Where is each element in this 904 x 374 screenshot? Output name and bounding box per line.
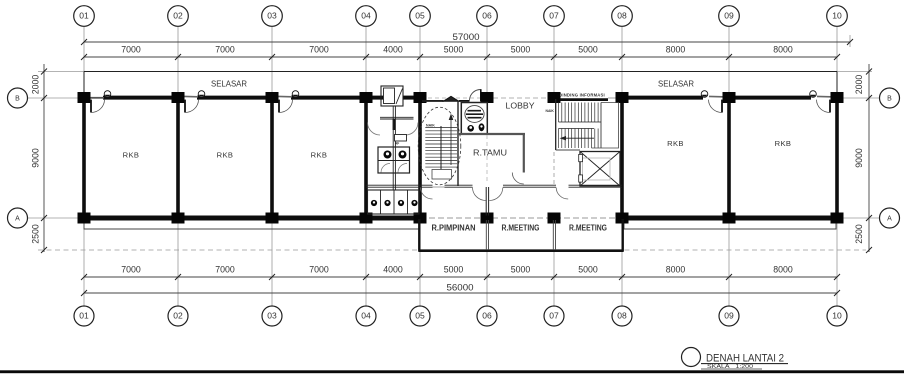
node lift inner cab [583, 158, 611, 180]
svg-text:4000: 4000 [383, 44, 403, 55]
wire selasar top right corner drop [836, 72, 838, 96]
wall meeting divider 2 [553, 220, 555, 250]
node grid bubble 09 top [719, 6, 740, 27]
wall A left section [84, 216, 420, 221]
svg-text:SELASAR: SELASAR [211, 79, 247, 89]
wall column line 02 [176, 98, 180, 218]
svg-text:5000: 5000 [511, 264, 531, 275]
door stall arc 1 [381, 164, 390, 173]
wall B room5 [734, 96, 811, 100]
svg-text:57000: 57000 [453, 31, 480, 42]
svg-text:7000: 7000 [309, 264, 329, 275]
wall stair center divider [440, 126, 442, 170]
door double swing triangle [444, 96, 459, 101]
node urinal bowl 3 [398, 200, 404, 206]
svg-text:8000: 8000 [773, 264, 793, 275]
svg-text:09: 09 [724, 11, 734, 21]
column A-03 [266, 213, 279, 224]
svg-text:B: B [15, 96, 20, 103]
column B-09 [723, 92, 736, 103]
wire col 04 extension top [365, 27, 367, 96]
column A-02 [172, 213, 185, 224]
wire col 02 extension bottom [177, 221, 179, 306]
door room1 arc [91, 100, 105, 113]
wall lift box [580, 152, 620, 187]
column A-08 [616, 213, 629, 224]
svg-text:06: 06 [482, 311, 492, 321]
wire col 07 gridline through corridor [553, 152, 555, 184]
door stall arc 2 [398, 164, 407, 173]
svg-text:RKB: RKB [217, 151, 234, 160]
node u-stair flight2 treads [559, 129, 599, 149]
node toilet bowl 1 [384, 151, 392, 159]
door room2 lintel [185, 95, 199, 97]
wire col 08 extension top [621, 27, 623, 96]
node lift cross diagonal 1 [580, 152, 620, 187]
node knob symbol 4 [701, 91, 708, 98]
svg-text:5000: 5000 [578, 44, 598, 55]
svg-text:5000: 5000 [444, 44, 464, 55]
svg-text:LOBBY: LOBBY [506, 101, 535, 111]
wire bottom segment dim line [84, 276, 837, 278]
svg-text:5000: 5000 [444, 264, 464, 275]
wire col 05 extension top [419, 27, 421, 96]
wall stairwell right [457, 101, 459, 186]
door c6 leaf [480, 89, 482, 101]
column B-04 [360, 92, 373, 103]
node grid bubble 05 bottom [410, 306, 430, 326]
node grid bubble 01 top [74, 6, 95, 27]
wire col 09 extension top [728, 27, 730, 96]
node washtafel ellipse [465, 106, 484, 123]
wall corridor mid seg [445, 185, 473, 187]
dimension labels bottom [121, 264, 793, 293]
wire col6 gridline through rtamu [486, 135, 488, 183]
wire col 07 extension bottom [553, 252, 555, 306]
svg-text:03: 03 [267, 11, 277, 21]
node grid bubble 06 top [477, 6, 498, 27]
node knob symbol 1 [104, 91, 111, 98]
wire title underline 1 [701, 363, 788, 365]
dim tick marks [41, 39, 872, 296]
svg-text:01: 01 [79, 311, 89, 321]
wire B line gap lobby [493, 97, 548, 99]
wall B room4 [627, 96, 703, 100]
wall stairwell top [422, 100, 444, 102]
svg-text:NAIK: NAIK [546, 109, 555, 113]
svg-text:07: 07 [549, 311, 559, 321]
wall B room2 [197, 96, 266, 100]
node grid bubble 04 top [356, 6, 377, 27]
wall janitor inner [384, 88, 395, 104]
svg-text:2000: 2000 [30, 75, 41, 95]
dimension labels left (rotated) [30, 75, 865, 244]
svg-text:2500: 2500 [853, 224, 864, 244]
node urinal bowl 2 [384, 200, 390, 206]
wall B thin seg c5 to triangle [421, 100, 444, 102]
column A-04 [360, 213, 373, 224]
node grid bubble 08 bottom [612, 306, 632, 326]
column B-03 [266, 92, 279, 103]
svg-text:9000: 9000 [853, 148, 864, 168]
wall corridor stair seg [420, 185, 433, 187]
node grid bubble 02 top [168, 6, 189, 27]
wall u-stair mid rail [559, 103, 602, 149]
node grid bubble 07 top [544, 6, 565, 27]
svg-text:B: B [887, 96, 892, 103]
wire top total dim line 57000 [84, 41, 850, 43]
column B-06 [481, 92, 494, 103]
wall B toilet left [370, 96, 383, 100]
node stair treads [425, 128, 457, 168]
wire col 05 gridline through corridor [419, 188, 421, 212]
wire col 06 extension bottom [486, 252, 488, 306]
column A-09 [723, 213, 736, 224]
door room3 arc [279, 100, 293, 113]
node grid bubble 05 top [410, 6, 431, 27]
wire ledge line below A right [624, 221, 836, 230]
svg-text:4000: 4000 [383, 264, 403, 275]
node grid bubble B right [880, 88, 900, 108]
wire left dim line [43, 64, 45, 252]
wire col 06 extension top [486, 27, 488, 96]
node grid bubble 09 bottom [719, 306, 739, 326]
wire col 03 extension bottom [271, 221, 273, 306]
column A-01 [78, 213, 91, 224]
wire col 10 extension top [836, 27, 838, 96]
door room2 arc [185, 100, 199, 113]
wire shaft pipe 2 [394, 106, 396, 190]
wall B room3 [291, 96, 360, 100]
wall column line 05 [418, 98, 422, 218]
node fixture basin [479, 123, 485, 131]
wire 57000 end extension [849, 35, 851, 47]
column B-02 [172, 92, 185, 103]
svg-text:A: A [887, 216, 892, 223]
door room5 leaf [829, 100, 831, 113]
wire B line gap x608-616 [608, 97, 616, 99]
svg-text:56000: 56000 [447, 282, 474, 293]
wire row B extension right [837, 97, 879, 99]
column A-06 [481, 213, 494, 224]
svg-text:AF: AF [395, 142, 399, 146]
wall rtamu top [458, 133, 525, 135]
door room2 leaf [184, 100, 186, 113]
wall u-stair bottom [556, 149, 580, 151]
wall janitor box above B [381, 86, 403, 106]
wall column line 04 [364, 98, 368, 218]
wire title underline 2 [701, 368, 762, 370]
svg-text:7000: 7000 [121, 44, 141, 55]
svg-text:RKB: RKB [667, 139, 684, 148]
svg-text:7000: 7000 [121, 264, 141, 275]
door room5 arc [817, 100, 831, 113]
door room4 arc [709, 100, 723, 113]
wall rtamu right [523, 134, 525, 173]
svg-text:R.PIMPINAN: R.PIMPINAN [432, 224, 476, 233]
svg-text:8000: 8000 [666, 264, 686, 275]
node lift cross diagonal 2 [580, 152, 620, 187]
svg-text:04: 04 [361, 11, 371, 21]
wire row A extension right [837, 217, 879, 219]
node title bubble [682, 348, 701, 367]
wall u-stair landing right [592, 103, 619, 149]
wall A middle thin (top of meeting rooms) [420, 217, 622, 219]
node grid bubble B left [8, 88, 28, 108]
node grid bubble A left [8, 208, 28, 228]
wall meeting right [622, 219, 624, 252]
svg-text:DENAH LANTAI 2: DENAH LANTAI 2 [706, 353, 784, 365]
svg-text:04: 04 [361, 311, 371, 321]
svg-text:5000: 5000 [578, 264, 598, 275]
wire col 06 gridline through lobby [486, 104, 488, 132]
wall twin stall front line [378, 160, 410, 162]
wall meeting bottom [419, 249, 624, 252]
wall B toilet right [403, 96, 416, 100]
door corridor col7 arc [556, 188, 568, 200]
door room3 lintel [279, 95, 293, 97]
door corridor right arc [489, 188, 503, 201]
wire u-stair arrow [564, 137, 594, 139]
wire col 03 extension top [271, 27, 273, 96]
door janitor diagonal [396, 89, 403, 105]
wall column line 10 [835, 98, 839, 218]
column B-10 [831, 92, 844, 103]
wire col 02 extension top [177, 27, 179, 96]
node stair bottom landing [432, 170, 452, 180]
wall meeting left [418, 219, 420, 252]
wire top edge extension left [38, 71, 84, 73]
svg-text:7000: 7000 [215, 44, 235, 55]
node grid bubble 03 top [262, 6, 283, 27]
wall corridor seg right of doors [503, 185, 556, 187]
svg-text:05: 05 [415, 11, 425, 21]
wire stair up arrow [450, 119, 452, 165]
svg-text:2500: 2500 [30, 224, 41, 244]
svg-text:8000: 8000 [666, 44, 686, 55]
svg-text:RKB: RKB [311, 151, 328, 160]
wall ledge below janitor [380, 117, 414, 119]
wall column line 08 [620, 98, 624, 218]
door room4 lintel [709, 95, 723, 97]
column B-05 [414, 92, 427, 103]
node grid bubble 10 bottom [827, 306, 847, 326]
wire selasar top edge [84, 71, 837, 73]
node stair void dashed ellipse [418, 107, 461, 185]
wall pantry box [461, 103, 487, 135]
node knob symbol 2 [198, 91, 205, 98]
node grid bubble 01 bottom [74, 306, 94, 326]
wall urinal divider 1 [380, 190, 382, 214]
svg-text:9000: 9000 [30, 148, 41, 168]
svg-text:05: 05 [415, 311, 425, 321]
node AF box [395, 135, 407, 142]
wall corridor toilet seg [366, 185, 420, 187]
wire ledge line below A left [84, 221, 420, 230]
node grid bubble 03 bottom [262, 306, 282, 326]
wire bottom border bar [0, 370, 904, 373]
wall meeting divider 1 [486, 220, 488, 250]
svg-text:7000: 7000 [309, 44, 329, 55]
wire row A extension left [28, 217, 84, 219]
wall column line 09 [727, 98, 731, 218]
svg-text:10: 10 [832, 311, 842, 321]
node grid bubble 06 bottom [477, 306, 497, 326]
node fixture wc [467, 125, 474, 132]
svg-text:R.TAMU: R.TAMU [473, 148, 507, 158]
svg-text:A: A [15, 216, 20, 223]
column A-05 [414, 213, 427, 224]
wire col 10 extension bottom [836, 221, 838, 306]
door wc-right arc [406, 123, 419, 136]
door room1 lintel [91, 97, 105, 99]
svg-text:2000: 2000 [853, 75, 864, 95]
wall col6 stub double [486, 187, 488, 216]
wall stair left [555, 99, 557, 150]
door room5 lintel [817, 95, 831, 97]
svg-text:10: 10 [832, 11, 842, 21]
wall corridor seg lift [569, 185, 623, 187]
node urinal bowl 4 [411, 200, 417, 206]
wall B thin seg triangle to door [459, 100, 470, 102]
svg-text:7000: 7000 [215, 264, 235, 275]
svg-text:09: 09 [724, 311, 734, 321]
node grid bubble A right [880, 208, 900, 228]
door c6 arc [470, 90, 481, 101]
node lift jamb stub bottom [579, 175, 583, 182]
wire right dim line [868, 64, 870, 252]
wire col 08 extension bottom [621, 252, 623, 306]
door corridor left arc [473, 188, 487, 201]
node grid bubble 10 top [827, 6, 848, 27]
wire selasar top left corner drop [83, 72, 85, 96]
node lift jamb stub top [579, 154, 583, 161]
wire col 05 extension bottom [419, 252, 421, 306]
wall A right section [622, 216, 837, 221]
svg-text:SELASAR: SELASAR [658, 79, 694, 89]
node toilet bowl 2 [399, 151, 407, 159]
svg-text:02: 02 [173, 311, 183, 321]
door stair exit leaf [433, 186, 445, 188]
svg-text:NAIK: NAIK [426, 123, 435, 127]
svg-text:06: 06 [482, 11, 492, 21]
node grid bubble 04 bottom [356, 306, 376, 326]
wire col 07 extension top [553, 27, 555, 96]
column B-07 [548, 92, 561, 103]
svg-text:RKB: RKB [775, 139, 792, 148]
node urinal bowl 1 [371, 200, 377, 206]
svg-text:R.MEETING: R.MEETING [569, 224, 607, 233]
door toilet exit arc [421, 188, 433, 200]
column B-08 [616, 92, 629, 103]
svg-text:DINDING INFORMASI: DINDING INFORMASI [559, 93, 605, 98]
wire col 04 extension bottom [365, 221, 367, 306]
wall urinal divider 3 [407, 190, 409, 214]
node grid bubble 08 top [612, 6, 633, 27]
door room1 leaf [90, 100, 92, 113]
node knob symbol 3 [292, 91, 299, 98]
door wc-left arc [368, 123, 381, 136]
wire row B extension left [28, 97, 84, 99]
svg-text:08: 08 [617, 11, 627, 21]
door room3 leaf [278, 100, 280, 113]
wire col 01 extension top [83, 27, 85, 96]
wall urinal row outer [368, 190, 420, 214]
svg-text:03: 03 [267, 311, 277, 321]
wire top edge extension right [837, 71, 872, 73]
column B-01 [78, 92, 91, 103]
door room4 leaf [721, 100, 723, 113]
column A-10 [831, 213, 844, 224]
wire top segment dim line [84, 56, 837, 58]
wall dinding informasi [556, 98, 608, 101]
wall B room1 [103, 96, 172, 100]
wall column line 03 [270, 98, 274, 218]
node u-stair flight1 treads [559, 103, 599, 123]
column A-07 [548, 213, 561, 224]
node knob symbol 5 [810, 91, 817, 98]
wire B gridline dashed c5-c6 [421, 97, 480, 99]
svg-text:07: 07 [549, 11, 559, 21]
wire shaft pipe 1 [392, 106, 394, 190]
wire col 09 extension bottom [728, 221, 730, 306]
wall column line 01 [82, 98, 86, 218]
wire col 01 extension bottom [83, 221, 85, 306]
wire bottom total dim line 56000 [84, 292, 837, 294]
door rtamu arc [512, 173, 524, 185]
wall twin stall outer [378, 147, 410, 173]
wire 2500 offset dashed line full width [38, 249, 866, 251]
svg-text:R.MEETING: R.MEETING [502, 224, 540, 233]
wire pipe thick segment [393, 119, 395, 130]
svg-text:01: 01 [79, 11, 89, 21]
dimension labels top [121, 31, 793, 55]
svg-text:02: 02 [173, 11, 183, 21]
svg-text:08: 08 [617, 311, 627, 321]
node grid bubble 07 bottom [544, 306, 564, 326]
node grid bubble 02 bottom [168, 306, 188, 326]
svg-text:8000: 8000 [773, 44, 793, 55]
wall urinal divider 2 [393, 190, 395, 214]
svg-text:5000: 5000 [511, 44, 531, 55]
svg-text:RKB: RKB [123, 151, 140, 160]
